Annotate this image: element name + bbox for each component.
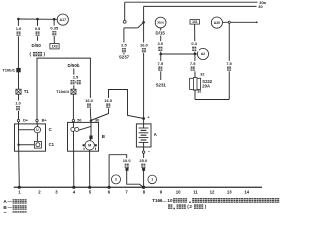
wire motor ground to bus [89,150,91,187]
solenoid coil [71,127,79,131]
wire D+ into box [18,122,20,145]
label 7.5 black left [155,61,165,71]
wire 0.3 black from box down [194,24,196,54]
svg-text:M: M [88,144,91,148]
node ground bus mid [36,18,39,21]
wire ground collector bus [18,18,57,20]
node A20 branch junction [228,21,230,23]
weld point 1 [148,175,157,184]
caption line 1 [152,198,279,203]
weld point 2 [112,175,121,184]
svg-text:1.0: 1.0 [16,26,22,31]
svg-text:1X1: 1X1 [192,20,197,24]
wire fuse to bottom corner [194,89,196,99]
label 0.3 black [189,41,199,51]
svg-text:T10d/4: T10d/4 [56,89,69,94]
wire switch down to S237 [123,28,125,55]
svg-text:S237: S237 [119,55,130,60]
regulator C1 [34,141,41,148]
connector box 1X3 [50,44,59,49]
terminal eyelet battery ground [142,168,145,171]
svg-text:B: B [102,134,105,139]
svg-text:B+: B+ [42,118,48,123]
svg-text:7.5: 7.5 [158,61,164,66]
connection point A20 [211,17,222,28]
wire 2.5 red-black from D/50b [73,68,75,89]
svg-text:D/50b: D/50b [68,63,80,68]
terminal eyelet body ground [126,168,129,171]
connector box 1X1 [190,20,200,25]
wire D+ to generator symbol [19,129,35,131]
wire generator to regulator [36,133,38,142]
svg-text:D+: D+ [23,118,29,123]
wire fuse branch down [194,54,196,78]
label 10.0 black [121,158,133,168]
node terminal 30 [90,119,93,122]
label D/15 [155,30,166,35]
label ignition switch note [30,52,46,57]
node regulator branch [17,144,19,146]
legend line B starter [3,205,26,210]
node battery positive [142,117,145,120]
svg-text:14: 14 [244,189,249,194]
svg-text:30: 30 [95,118,99,122]
svg-text:T10b/1: T10b/1 [2,68,15,73]
node ground generator [18,186,21,189]
wire T10d/4 to starter 50 [72,94,74,119]
node ground strap [108,186,111,189]
wire 30 power rail [144,5,257,7]
legend line A battery [3,199,26,204]
battery box A [136,124,151,147]
wire 30 into box [90,122,92,136]
svg-text:7.5: 7.5 [226,61,232,66]
node battery feed top [142,21,145,24]
ground point A17 [57,14,68,25]
svg-text:T166: T166 [152,198,163,203]
svg-text:0.35: 0.35 [50,26,59,31]
wire node to regulator [19,144,35,146]
wire battery negative to ground bus [143,153,145,187]
wire 0.5 black down to ignition switch D/50 [37,19,39,41]
label 2.5 red [119,43,129,53]
svg-text:13: 13 [227,189,232,194]
svg-text:11: 11 [193,189,198,194]
wire generator ground to bus [18,145,21,188]
svg-text:D/50: D/50 [32,43,42,48]
label T10b/1 [1,68,16,73]
generator symbol [34,127,40,133]
wire battery cable to starter 30 [92,90,144,121]
node ground battery [142,186,145,189]
node fuse branch [194,53,197,56]
svg-text:1: 1 [151,178,153,182]
battery plates [139,128,149,142]
svg-text:30: 30 [258,4,262,9]
wire switch to S237 horizontal [124,27,138,29]
switch blade [138,22,144,28]
wire contact to motor [90,139,91,141]
track numbers [18,189,249,194]
wire D/15 branch down [160,28,162,54]
node ground bus left [17,18,20,21]
label 16.0 black battery cable [102,98,114,108]
svg-text:10: 10 [176,189,181,194]
terminal circle 30(A) [155,17,166,28]
svg-text:2: 2 [189,204,192,209]
terminal battery negative [142,151,144,153]
svg-text:A17: A17 [60,18,67,22]
svg-text:1X3: 1X3 [52,44,58,48]
terminal end point [256,21,258,23]
svg-text:30(A): 30(A) [157,21,164,25]
wire 30a power rail [125,1,258,3]
svg-text:D/15: D/15 [156,31,166,36]
label 4.0 black [155,41,165,51]
wire battery negative stem [143,142,145,151]
label 0.35 black [48,26,60,36]
caption line 2 [168,204,207,209]
svg-text:10: 10 [167,198,173,203]
node D15 branch [159,53,162,56]
svg-text:0.5: 0.5 [35,26,41,31]
wire 1.0 black down to generator D+ [17,19,19,120]
wire body ground strap [109,155,143,188]
label wire colour red/black [71,80,81,85]
generator box C [15,124,46,151]
svg-text:S231: S231 [156,83,167,88]
switch fixed contact [123,20,126,23]
wire from rail 30 down to node [143,6,145,22]
svg-text:10.0: 10.0 [123,158,132,163]
wire from rail 30a down to switch contact [124,2,126,20]
svg-text:1.0: 1.0 [15,101,21,106]
label 1.0 black lower [13,101,23,111]
wire bottom horizontal to A20 branch [195,99,229,101]
svg-text:7.5: 7.5 [190,61,196,66]
svg-text:32: 32 [200,73,204,77]
svg-text:0.3: 0.3 [191,41,197,46]
svg-text:16.0: 16.0 [104,98,113,103]
wire B+ into box [36,122,38,127]
wire horizontal to A2 [161,53,198,55]
svg-text:50: 50 [77,118,81,122]
wire generator B+ bridge to starter 30 [37,58,91,120]
svg-text:A2: A2 [201,52,206,56]
wire to splice S231 [160,54,162,80]
label 0.5 black [33,26,43,36]
svg-text:32: 32 [197,90,201,94]
label 16.0 black generator cable [83,98,95,108]
ground rail [14,186,262,188]
wire A20 to terminal [223,21,257,23]
contact block [89,136,92,140]
connector T1 [16,89,21,94]
svg-text:4.0: 4.0 [158,41,164,46]
wire battery positive stem [143,119,145,129]
svg-text:20A: 20A [202,84,210,89]
connector T10d/4 [71,89,76,94]
solenoid contact blade [79,126,91,130]
label 2.5 red-black [70,75,81,86]
connector T10b/1 [16,68,20,72]
label 7.5 black right [224,61,234,71]
svg-text:16.0: 16.0 [140,43,149,48]
svg-text:A20: A20 [214,21,220,25]
terminal D+ [17,119,19,121]
terminal B+ [36,119,38,121]
svg-text:T1: T1 [24,89,30,94]
starter box B [68,122,99,151]
node ground motor [88,186,91,189]
wire A20 branch vertical [228,22,230,99]
svg-text:2: 2 [115,178,117,182]
wire battery feed vertical [143,22,145,118]
label 1.0 red [138,43,150,53]
svg-text:C1: C1 [49,142,55,147]
wire 0.35 black down to connector box [53,19,55,43]
label 7.5 black mid [188,61,198,71]
wire 50 through solenoid to ground bus [72,122,74,188]
svg-text:16.0: 16.0 [85,98,94,103]
node ground solenoid [72,186,75,189]
connection point A2 [197,48,208,59]
starter motor M [83,141,97,150]
terminal 50 [72,119,74,121]
label 25.0 black [137,158,149,168]
fuse S232 [190,78,201,91]
svg-text:12: 12 [210,189,215,194]
node ground bus right [53,18,56,21]
label 1.0 black upper [14,26,24,36]
svg-text:2.5: 2.5 [121,43,127,48]
svg-text:—: — [163,198,167,203]
svg-text:25.0: 25.0 [139,158,148,163]
legend line C generator [3,211,26,216]
